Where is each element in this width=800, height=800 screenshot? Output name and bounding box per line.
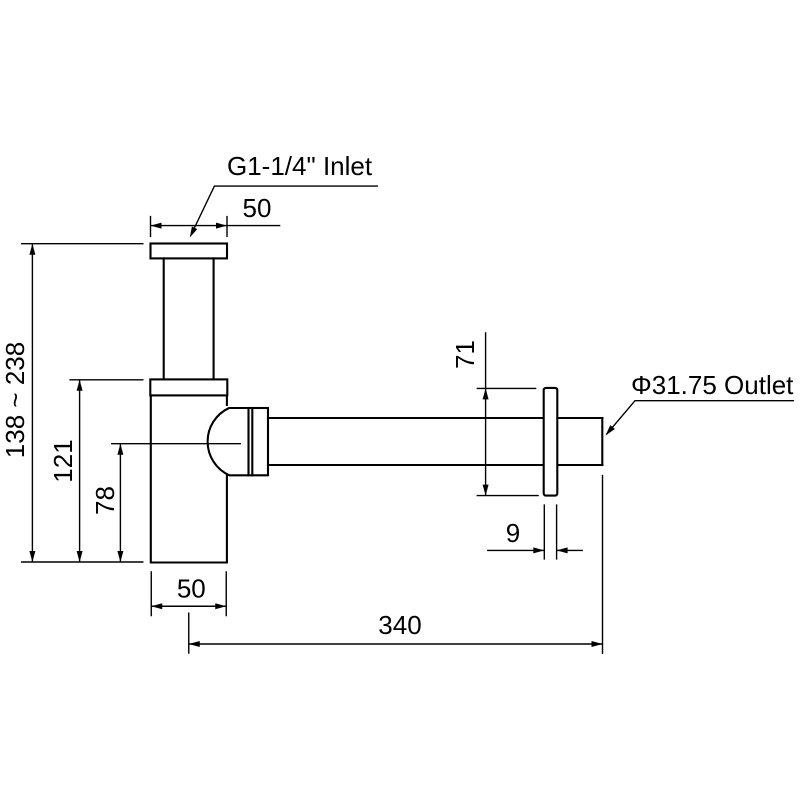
trap body outline bbox=[151, 395, 227, 562]
dimension 9: left arrow bbox=[533, 547, 544, 553]
dimension 121: line bbox=[79, 380, 81, 562]
extension line bottom left (body bottom level) bbox=[21, 561, 144, 563]
dimension 50 bottom: extensions bbox=[151, 571, 226, 616]
outlet pipe bottom wall bbox=[268, 464, 602, 466]
inlet pipe wall left bbox=[163, 258, 165, 379]
dimension 71: top extension bbox=[477, 387, 537, 389]
inlet flange bbox=[151, 244, 228, 259]
dimension 50 bottom: right arrow bbox=[215, 603, 226, 609]
body top flange bbox=[150, 379, 227, 395]
outlet nut bbox=[249, 408, 269, 475]
extension line top left (flange top level) bbox=[21, 243, 144, 245]
dimension 138~238: line bbox=[31, 244, 33, 562]
dimension 78: top arrow bbox=[117, 444, 123, 455]
svg-text:71: 71 bbox=[450, 340, 480, 369]
inlet pipe wall right bbox=[213, 258, 215, 379]
dimension 340: left extension bbox=[188, 613, 190, 654]
svg-text:50: 50 bbox=[177, 574, 206, 604]
inlet leader arrow bbox=[190, 227, 198, 238]
dimension 340: right arrow bbox=[592, 641, 603, 647]
dimension 138~238: bottom arrow bbox=[29, 551, 35, 562]
dimension 71: line bbox=[485, 332, 487, 495]
outlet leader arrow bbox=[606, 425, 615, 435]
outlet nut inner ring line bbox=[251, 408, 253, 475]
dimension 71: up arrow bbox=[483, 388, 489, 399]
dimension 121: bottom arrow bbox=[77, 551, 83, 562]
dimension 340: line bbox=[189, 643, 603, 645]
svg-text:G1-1/4" Inlet: G1-1/4" Inlet bbox=[227, 151, 373, 181]
dimension 9: right extension bbox=[556, 504, 558, 559]
dimension 138~238: top arrow bbox=[29, 244, 35, 255]
dimension 50 bottom: line bbox=[151, 605, 226, 607]
svg-text:121: 121 bbox=[48, 439, 78, 482]
svg-text:340: 340 bbox=[378, 610, 421, 640]
dimension 9: left line bbox=[487, 549, 544, 551]
svg-text:9: 9 bbox=[506, 518, 520, 548]
wall flange bbox=[544, 388, 558, 496]
dimension 9: left extension bbox=[543, 504, 545, 559]
dimension 71: bottom extension bbox=[477, 495, 539, 497]
dimension 71: down arrow bbox=[483, 485, 489, 496]
dimension 9: right arrow bbox=[557, 547, 568, 553]
dimension 9: right line bbox=[557, 549, 583, 551]
elbow curve bbox=[208, 408, 249, 475]
outlet leader line bbox=[607, 401, 795, 435]
dimension 121: top arrow bbox=[77, 380, 83, 391]
svg-text:50: 50 bbox=[243, 193, 272, 223]
dimension 78: line bbox=[119, 444, 121, 562]
svg-text:78: 78 bbox=[90, 486, 120, 515]
dimension 50 top: left arrow bbox=[151, 223, 162, 229]
svg-text:Φ31.75 Outlet: Φ31.75 Outlet bbox=[631, 370, 794, 400]
extension line body flange level bbox=[69, 379, 143, 381]
svg-text:138 ~ 238: 138 ~ 238 bbox=[0, 342, 30, 458]
dimension 50 top: dimension line bbox=[151, 225, 281, 227]
inlet leader line bbox=[192, 186, 379, 234]
outlet pipe top wall bbox=[268, 417, 602, 419]
dimension 78: bottom arrow bbox=[117, 551, 123, 562]
dimension 50 top: right arrow bbox=[216, 223, 227, 229]
dimension 50 top: extension ticks bbox=[151, 216, 228, 237]
outlet centerline bbox=[111, 443, 241, 445]
dimension 340: left arrow bbox=[189, 641, 200, 647]
outlet pipe end cap bbox=[601, 418, 603, 465]
dimension 50 bottom: left arrow bbox=[151, 603, 162, 609]
dimension 340: right extension bbox=[602, 475, 604, 654]
